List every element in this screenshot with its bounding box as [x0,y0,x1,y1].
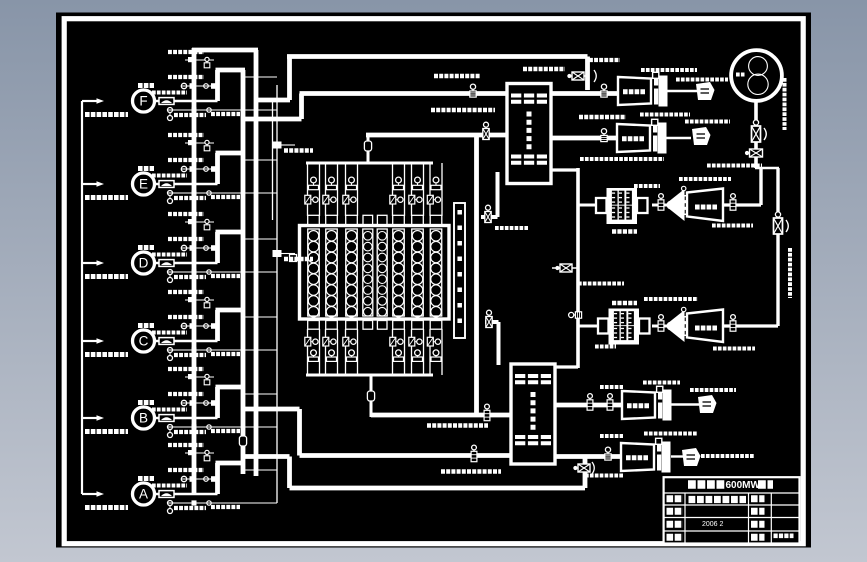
svg-text:C: C [139,334,149,349]
svg-text:F: F [139,94,147,109]
svg-text:B: B [139,411,148,426]
svg-text:D: D [139,256,149,271]
svg-text:E: E [139,177,148,192]
svg-text:2006 2: 2006 2 [702,521,724,528]
svg-text:600MW: 600MW [726,480,761,491]
svg-text:A: A [139,487,148,502]
